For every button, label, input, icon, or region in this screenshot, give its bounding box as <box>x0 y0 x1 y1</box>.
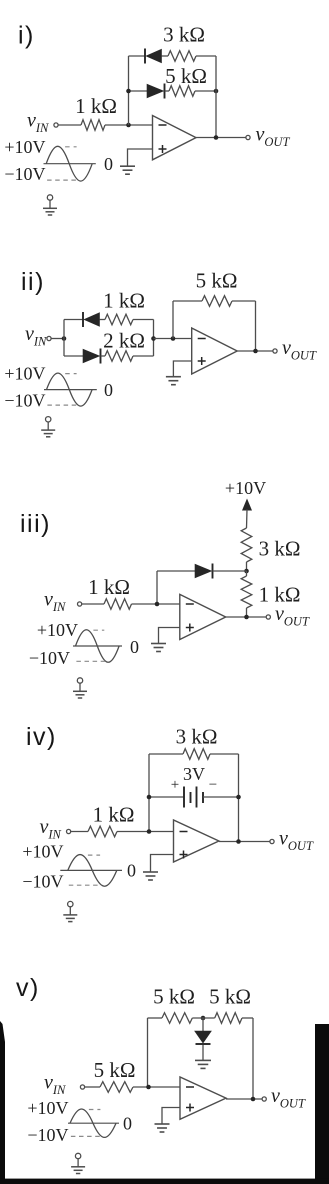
scan edge bottom bar <box>0 1179 329 1184</box>
resistor R2 3 kOhm (i) <box>163 23 205 62</box>
svg-text:1 kΩ: 1 kΩ <box>93 803 135 827</box>
svg-text:−10V: −10V <box>4 391 45 411</box>
wire R1 to inverting input (iii) <box>132 602 180 607</box>
svg-text:+10V: +10V <box>37 620 78 640</box>
svg-text:+: + <box>171 777 179 793</box>
wire noninverting to ground (ii) <box>173 361 191 376</box>
svg-text:3V: 3V <box>183 764 205 784</box>
battery V1 3V (iv) <box>171 764 217 808</box>
wire feedback top right (ii) <box>232 300 256 302</box>
op-amp U1 (ii) <box>192 328 238 374</box>
op-amp U1 (i) <box>153 116 197 160</box>
wire R1 to inverting input (v) <box>133 1085 180 1090</box>
resistor R3 5 kOhm (i) <box>165 64 207 96</box>
wire R1 to inverting input (iv) <box>117 829 174 834</box>
wire output (ii) <box>237 349 272 354</box>
resistor R2 2 kOhm (ii) <box>103 329 145 362</box>
ground reference (i) <box>43 195 57 215</box>
diode D1 (ii) <box>83 312 100 327</box>
scan edge left bar <box>0 1021 5 1184</box>
wire vIN to R1 (iii) <box>82 603 104 605</box>
svg-text:vOUT: vOUT <box>279 828 314 854</box>
svg-text:+10V: +10V <box>27 1098 68 1118</box>
wire R1 to inverting input (i) <box>105 123 153 128</box>
wire feedback right vertical (ii) <box>255 301 257 351</box>
wire join right vertical (ii) <box>151 320 156 357</box>
diode D1 (i) <box>145 49 162 64</box>
wire feedback top left (ii) <box>173 300 202 302</box>
ground reference (ii) <box>41 417 55 437</box>
svg-text:0: 0 <box>127 860 136 880</box>
label ii <box>21 268 45 296</box>
wire feedback top left (iv) <box>149 753 183 755</box>
ground at U1 + (ii) <box>166 377 181 385</box>
wire R2 to right rail (i) <box>196 55 216 57</box>
svg-text:+10V: +10V <box>225 478 266 498</box>
wire node to diode (iii) <box>157 570 195 572</box>
svg-text:vOUT: vOUT <box>271 1085 306 1111</box>
svg-text:3 kΩ: 3 kΩ <box>163 23 205 47</box>
wire diode to ground (v) <box>202 1045 204 1060</box>
svg-text:vOUT: vOUT <box>282 337 317 363</box>
wire vIN to R1 (iv) <box>71 831 88 833</box>
resistor R3 5 kOhm (v) <box>209 985 251 1024</box>
node vIN terminal (iii) <box>44 589 82 615</box>
wire R4 to output node (iii) <box>246 608 248 617</box>
wire feedback right vertical (v) <box>252 1018 254 1099</box>
node vOUT terminal (iii) <box>266 603 310 629</box>
wire top branch left (ii) <box>64 319 83 321</box>
wire output (i) <box>196 135 246 140</box>
resistor R2 3 kOhm (iv) <box>176 725 218 760</box>
wire noninverting to ground (iii) <box>159 628 180 644</box>
svg-text:1 kΩ: 1 kΩ <box>88 575 130 599</box>
wire split left vertical (ii) <box>63 320 65 357</box>
svg-text:iii): iii) <box>20 510 51 538</box>
svg-text:0: 0 <box>130 637 139 657</box>
svg-text:5 kΩ: 5 kΩ <box>209 985 251 1009</box>
wire noninverting to ground (iv) <box>151 855 174 872</box>
svg-text:+10V: +10V <box>22 842 63 862</box>
svg-text:2 kΩ: 2 kΩ <box>103 329 145 353</box>
ground reference (iii) <box>73 678 87 698</box>
diode D2 (ii) <box>83 349 101 364</box>
wire feedback top right (iv) <box>210 753 239 755</box>
wire feedback right vertical (i) <box>215 56 217 138</box>
node B junction (v) <box>201 1016 206 1021</box>
source waveform (iv) <box>22 842 136 892</box>
ground at U1 + (v) <box>155 1124 170 1132</box>
svg-text:3 kΩ: 3 kΩ <box>259 537 301 561</box>
label i <box>18 22 35 50</box>
label v <box>16 974 40 1002</box>
svg-text:+10V: +10V <box>4 137 45 157</box>
resistor R1 1 kOhm (ii) <box>103 289 145 325</box>
diode D1 (v) <box>195 1031 212 1044</box>
wire R2 to right vertical (ii) <box>133 355 154 357</box>
wire noninverting to ground (v) <box>162 1108 180 1124</box>
label iii <box>20 510 51 538</box>
svg-text:vIN: vIN <box>27 110 49 136</box>
svg-text:3 kΩ: 3 kΩ <box>176 725 218 749</box>
svg-text:5 kΩ: 5 kΩ <box>196 269 238 293</box>
ground at U1 + (i) <box>120 166 135 174</box>
wire R2 to node B (v) <box>192 1017 214 1019</box>
wire D2 to R3 (i) <box>165 90 170 92</box>
svg-text:v): v) <box>16 974 40 1002</box>
resistor R2 5 kOhm (v) <box>153 985 195 1024</box>
ground at diode (v) <box>195 1060 211 1068</box>
svg-text:vIN: vIN <box>25 323 47 349</box>
wire feedback left vertical (v) <box>147 1018 149 1087</box>
resistor R3 3 kOhm vertical (iii) <box>241 528 300 562</box>
wire vIN stub (ii) <box>51 336 66 341</box>
wire vIN to R1 (i) <box>58 124 81 126</box>
svg-text:5 kΩ: 5 kΩ <box>153 985 195 1009</box>
svg-text:1 kΩ: 1 kΩ <box>103 289 145 313</box>
op-amp U1 (iii) <box>180 594 226 639</box>
resistor R1 1 kOhm (i) <box>75 94 117 130</box>
wire feedback left vertical (i) <box>128 56 130 125</box>
label iv <box>26 723 57 751</box>
wire bottom branch left (ii) <box>64 355 83 357</box>
svg-text:−: − <box>209 777 217 793</box>
node vOUT terminal (i) <box>246 124 291 150</box>
source waveform (iii) <box>29 620 139 668</box>
svg-text:−10V: −10V <box>4 164 45 184</box>
node vOUT terminal (v) <box>262 1085 306 1111</box>
svg-text:+10V: +10V <box>4 364 45 384</box>
svg-text:5 kΩ: 5 kΩ <box>94 1058 136 1082</box>
source waveform (ii) <box>4 364 113 411</box>
svg-text:−10V: −10V <box>27 1125 68 1145</box>
svg-text:vOUT: vOUT <box>256 124 291 150</box>
op-amp U1 (iv) <box>174 820 219 862</box>
wire feedback right vertical (iv) <box>238 754 240 842</box>
svg-text:i): i) <box>18 22 35 50</box>
wire D1 to R1 (ii) <box>100 319 106 321</box>
wire vIN to R1 (v) <box>85 1086 100 1088</box>
node vIN terminal (i) <box>27 110 58 136</box>
svg-text:0: 0 <box>104 380 113 400</box>
resistor R3 5 kOhm (ii) <box>196 269 238 307</box>
wire battery branch left (iv) <box>147 795 184 800</box>
diode D2 (i) <box>147 84 165 99</box>
resistor R1 1 kOhm (iv) <box>88 803 135 837</box>
node vIN terminal (ii) <box>25 323 51 349</box>
node vOUT terminal (ii) <box>273 337 317 363</box>
svg-text:−10V: −10V <box>29 648 70 668</box>
op-amp U1 (v) <box>180 1077 226 1119</box>
source waveform (v) <box>27 1098 132 1145</box>
wire R3 to node A (iii) <box>244 562 249 573</box>
wire diode stem (v) <box>202 1018 204 1031</box>
svg-text:vIN: vIN <box>44 1072 66 1098</box>
svg-text:0: 0 <box>123 1114 132 1134</box>
ground reference (iv) <box>63 901 77 921</box>
wire output (iv) <box>219 839 270 844</box>
wire R3 to right rail (i) <box>195 89 218 94</box>
supply +10V label (iii) <box>225 478 266 498</box>
scan edge right bar <box>315 1024 329 1184</box>
wire feedback left vertical (iv) <box>148 754 150 832</box>
svg-text:5 kΩ: 5 kΩ <box>165 64 207 88</box>
wire feedback top left (v) <box>148 1017 163 1019</box>
wire feedback left vertical (ii) <box>172 301 174 339</box>
supply arrow (iii) <box>242 499 252 529</box>
wire D2 to R2 (ii) <box>101 355 106 357</box>
wire D1 to R2 (i) <box>162 55 169 57</box>
diode D1 (iii) <box>195 564 213 579</box>
ground at U1 + (iv) <box>143 872 158 880</box>
source waveform (i) <box>4 137 113 184</box>
wire noninverting to ground (i) <box>128 149 153 166</box>
svg-text:1 kΩ: 1 kΩ <box>75 94 117 118</box>
wire diode branch left vertical (iii) <box>156 571 158 604</box>
svg-text:ii): ii) <box>21 268 45 296</box>
svg-text:iv): iv) <box>26 723 57 751</box>
wire output (iii) <box>226 615 266 620</box>
wire diode to node A (iii) <box>213 570 247 572</box>
wire battery branch right (iv) <box>203 795 241 800</box>
ground at U1 + (iii) <box>151 644 166 652</box>
wire mid branch left (i) <box>126 89 147 94</box>
svg-text:−10V: −10V <box>22 872 63 892</box>
svg-text:vIN: vIN <box>40 816 62 842</box>
node vIN terminal (iv) <box>40 816 71 842</box>
node vIN terminal (v) <box>44 1072 85 1098</box>
wire node B to R3... right (v) <box>242 1017 253 1019</box>
wire network to inverting input (ii) <box>154 336 192 341</box>
resistor R1 1 kOhm (iii) <box>88 575 131 609</box>
resistor R4 1 kOhm vertical (iii) <box>241 571 300 608</box>
wire output (v) <box>226 1097 262 1102</box>
node vOUT terminal (iv) <box>270 828 314 854</box>
wire R1 to right vertical (ii) <box>133 319 154 321</box>
svg-text:vIN: vIN <box>44 589 66 615</box>
svg-text:0: 0 <box>104 154 113 174</box>
ground reference (v) <box>71 1153 85 1173</box>
svg-text:vOUT: vOUT <box>275 603 310 629</box>
wire top branch left (i) <box>129 55 146 57</box>
resistor R1 5 kOhm (v) <box>94 1058 136 1092</box>
